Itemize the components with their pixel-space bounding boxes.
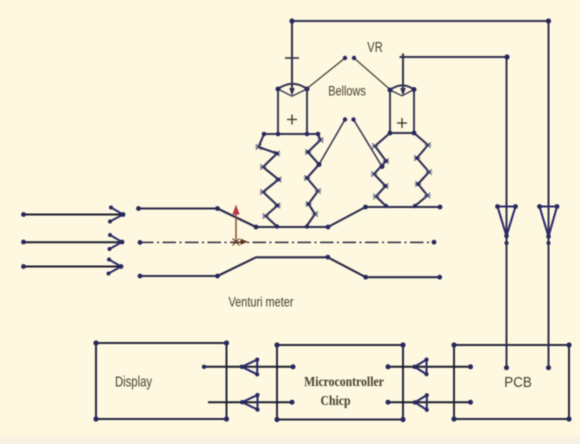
svg-text:PCB: PCB	[504, 374, 531, 391]
svg-text:Venturi meter: Venturi meter	[229, 294, 294, 310]
svg-text:Display: Display	[115, 373, 153, 390]
svg-text:Microcontroller: Microcontroller	[304, 373, 384, 389]
svg-text:Chicp: Chicp	[320, 392, 350, 408]
svg-text:VR: VR	[367, 38, 382, 55]
svg-text:Bellows: Bellows	[328, 83, 366, 99]
